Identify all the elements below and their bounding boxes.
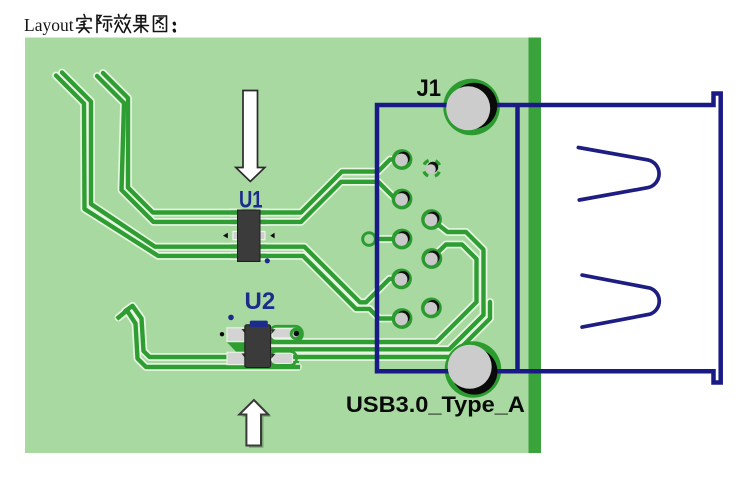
- wire pair B inner (to U1 pin1): [103, 73, 240, 213]
- big pad J1 top disks: [451, 83, 497, 129]
- CJK glyph 实: [77, 15, 92, 33]
- pad L1: [392, 149, 413, 170]
- wire pad L3 link: [369, 237, 402, 241]
- U2 right pad trace outline top: [270, 326, 303, 341]
- title text CJK 实际效果图： drawn as strokes: [77, 15, 175, 33]
- svg-text:Layout: Layout: [24, 15, 74, 35]
- arrow up (bottom): [239, 400, 268, 446]
- wire U1 pin4 to pad L4: [258, 247, 402, 303]
- U1 navy dot: [265, 258, 270, 263]
- wire hook outer stub: [119, 311, 299, 368]
- USB receptacle contact lower U: [582, 275, 659, 327]
- U2 body: [245, 325, 271, 368]
- U1 mark right: [270, 233, 274, 239]
- wire U1 pin2 to pad L2: [258, 182, 402, 222]
- via at U2 stub: [290, 328, 302, 340]
- pad L3: [392, 229, 413, 250]
- connector inner vertical line: [515, 105, 520, 371]
- U1 body: [238, 210, 261, 262]
- pad L4: [391, 269, 412, 290]
- PCB right edge dark strip: [529, 38, 542, 454]
- U2 blue dot: [228, 315, 234, 321]
- copper pour under U2: [227, 342, 274, 352]
- USB receptacle contact upper U: [578, 148, 659, 201]
- big pad J1 bottom disks: [451, 349, 497, 395]
- pad R4: [421, 298, 442, 319]
- pad R2: [421, 209, 442, 230]
- pad L5: [392, 308, 413, 329]
- U1 pin1 mark left: [223, 233, 228, 239]
- wire pair A outer (to U1 pin5): [56, 73, 490, 368]
- PCB board background: [25, 38, 529, 454]
- svg-text:U1: U1: [239, 187, 263, 214]
- pad L2: [392, 189, 413, 210]
- wire U1 pin1 to pad L1: [258, 160, 402, 213]
- U2 left pads: [227, 328, 245, 365]
- CJK glyph 效: [115, 15, 131, 33]
- U1 right pads: [259, 209, 267, 259]
- svg-text:USB3.0_Type_A: USB3.0_Type_A: [346, 392, 525, 417]
- U2 right pads: [272, 329, 293, 364]
- U2 navy top bar: [250, 321, 268, 327]
- trace halos (pale outline under all traces): [56, 73, 490, 368]
- CJK glyph 际: [97, 15, 112, 33]
- big pad J1 top ring: [443, 79, 500, 136]
- wire ring inner from pad R3: [272, 245, 477, 343]
- fullwidth colon: [173, 23, 177, 31]
- CJK glyph 果: [134, 16, 149, 33]
- U1 left pads: [231, 209, 240, 259]
- svg-text:U2: U2: [245, 288, 276, 315]
- wire pair A inner (to U1 pin4): [62, 73, 240, 247]
- connector outline J1 (blue): [377, 94, 721, 383]
- via R1 with thermal dashes: [421, 157, 443, 179]
- svg-text:J1: J1: [417, 75, 442, 102]
- CJK glyph 图: [154, 16, 167, 32]
- arrow up (bottom) shadow: [242, 402, 271, 448]
- U2 pad solder marks: [242, 329, 276, 359]
- wire ring outer from pad R2: [272, 220, 484, 350]
- wire U2 stub to via: [272, 332, 294, 336]
- big pad J1 bottom ring: [445, 341, 502, 398]
- wire hook inner / T3: [125, 302, 490, 357]
- pad hollow left of line: [361, 231, 377, 247]
- wire U1 pin5 to pad L5: [258, 256, 402, 319]
- U2 black dot: [220, 332, 224, 336]
- U2 right pad trace outline bottom: [270, 351, 297, 365]
- arrow down (top): [236, 91, 265, 182]
- pad R3: [421, 248, 442, 269]
- wire pair B outer (to U1 pin2): [97, 76, 240, 222]
